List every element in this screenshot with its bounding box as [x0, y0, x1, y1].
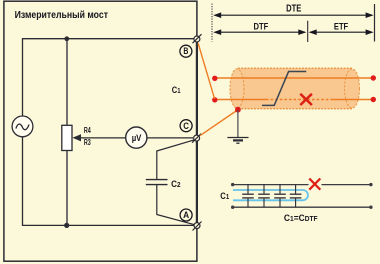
svg-text:µV: µV	[132, 133, 142, 143]
svg-text:A: A	[183, 210, 189, 220]
label node C	[180, 120, 192, 132]
label node B	[180, 45, 192, 57]
label: Измерительный мост	[15, 10, 108, 21]
label R3	[84, 138, 91, 147]
bridge box frame	[4, 1, 197, 261]
end dot pair bottom right	[369, 206, 372, 209]
step fault symbol	[262, 72, 306, 106]
svg-text:C2: C2	[171, 178, 180, 189]
line: faulted pair conductor bottom	[233, 206, 371, 208]
label R4	[84, 126, 91, 135]
svg-text:C1=CDTF: C1=CDTF	[284, 212, 318, 223]
wiper arrow to potentiometer	[72, 134, 125, 141]
label node A	[180, 209, 192, 221]
fault X on conductor 2	[300, 94, 312, 105]
svg-text:DTF: DTF	[254, 22, 269, 33]
dimension arrow DTF	[213, 29, 306, 35]
dimension arrow DTE	[213, 12, 373, 18]
terminal dot conductor 2 left	[212, 97, 217, 102]
wire: cable conductor 2	[215, 99, 373, 101]
line: faulted pair conductor top	[233, 184, 371, 186]
svg-text:R4: R4	[84, 126, 91, 135]
wire: galvanometer to node C	[147, 137, 193, 139]
resistor R4/R3 potentiometer	[62, 125, 72, 150]
wire: top rail	[23, 39, 195, 117]
terminal dot conductor 2 right	[371, 97, 376, 102]
ground symbol	[227, 138, 248, 144]
node A connector	[193, 222, 202, 231]
wire: source bottom to bottom rail	[23, 137, 195, 226]
node C connector	[192, 134, 201, 143]
label ETF	[334, 22, 348, 33]
dimension arrow ETF	[309, 29, 374, 35]
label C2	[171, 178, 180, 189]
terminal dot conductor 1 right	[371, 75, 376, 80]
end dot pair top left	[231, 183, 234, 186]
end dot pair top right	[369, 183, 372, 186]
distributed capacitor 1	[242, 185, 254, 208]
blue loop C_DTF region	[233, 190, 308, 200]
junction node bottom	[64, 223, 69, 228]
capacitor C2	[146, 180, 168, 185]
svg-text:C1: C1	[172, 84, 181, 95]
dimension extension line right	[374, 4, 376, 42]
label C1=CDTF	[284, 212, 318, 223]
wire: capacitor C2 to node A	[157, 185, 195, 225]
terminal dot conductor 1 left	[212, 76, 217, 81]
svg-text:B: B	[183, 46, 188, 56]
end dot pair bottom left	[231, 206, 234, 209]
distributed capacitor 3	[274, 185, 286, 208]
distributed capacitor 2	[258, 185, 270, 208]
wire: cable conductor 1	[215, 77, 373, 79]
wire: node C to capacitor C2	[157, 140, 195, 180]
dimension extension line middle	[307, 21, 309, 42]
junction node top	[64, 36, 69, 41]
svg-text:C: C	[183, 121, 189, 131]
cable sheath cylinder	[230, 68, 360, 109]
wire: node B to conductor 2	[198, 43, 215, 99]
wire: potentiometer to bottom rail	[66, 151, 68, 226]
ground wire	[237, 110, 239, 137]
label DTE	[286, 3, 302, 14]
distributed capacitor 4	[290, 185, 302, 208]
label C1 bridge arm	[172, 84, 181, 95]
label DTF	[254, 22, 269, 33]
svg-text:ETF: ETF	[334, 22, 348, 33]
dimension extension line left (dashed)	[211, 4, 213, 42]
wire: junction to potentiometer	[66, 39, 68, 126]
right rail B-C-A	[196, 40, 198, 261]
svg-text:Измерительный мост: Измерительный мост	[15, 10, 108, 21]
svg-text:DTE: DTE	[286, 3, 302, 14]
galvanometer µV	[126, 127, 147, 148]
fault X on pair	[309, 179, 320, 190]
label C1 pair	[220, 190, 229, 201]
wire: node C to sheath ground point	[200, 110, 237, 135]
svg-text:R3: R3	[84, 138, 91, 147]
svg-text:C1: C1	[220, 190, 229, 201]
node B connector	[193, 34, 202, 43]
sheath terminal dot	[235, 107, 241, 113]
ac source G1	[12, 116, 33, 137]
